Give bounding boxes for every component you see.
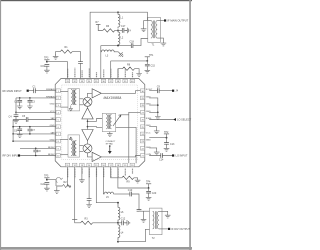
wire pin14 drop	[88, 167, 90, 199]
junction dot TP4	[148, 187, 150, 189]
wire TP5 stub right	[47, 180, 56, 186]
junction dot R6/L1/L2/C17	[117, 30, 119, 32]
svg-text:C20: C20	[152, 192, 157, 195]
capacitor C18 (series)	[131, 43, 133, 48]
resistor R2	[63, 184, 72, 187]
wire L2 bottom junction row	[101, 45, 132, 47]
test point TP5 bar	[44, 177, 49, 179]
junction dot pin7 row C7	[29, 133, 31, 135]
pin 30 box (right)	[140, 89, 144, 93]
resistor R3	[81, 221, 93, 224]
pin 33 box (top)	[80, 79, 84, 83]
capacitor C7 in pin33 drop	[78, 62, 83, 64]
ground below T1 secondary	[161, 41, 167, 46]
junction dot LO chain upper	[87, 121, 89, 123]
pin 11 name label (bottom, rotated smudge)	[132, 169, 134, 174]
pin 20 box (bottom)	[65, 163, 69, 167]
LO amp B2 triangle (points down)	[82, 130, 93, 141]
inductor L1 (vertical)	[118, 12, 120, 28]
junction dot pin8 row	[12, 140, 14, 142]
pin 34 box (top)	[87, 79, 91, 83]
wire link pin5 to pin7 row	[12, 120, 14, 134]
pin 9 box (left)	[56, 147, 60, 151]
test point bar R7b	[72, 218, 77, 220]
svg-text:C15: C15	[151, 65, 156, 68]
pin 40 box (top)	[130, 79, 134, 83]
wire pin13 to ground	[81, 167, 83, 178]
pin 13 name label (bottom, rotated smudge)	[117, 169, 119, 178]
capacitor C1 (series)	[34, 88, 36, 93]
svg-text:IF DIV OUTPUT: IF DIV OUTPUT	[171, 227, 190, 231]
wire LO chain to balun X3 lower tap	[88, 126, 103, 129]
capacitor C14 (series)	[161, 153, 163, 158]
wire LO chain to balun X3 upper tap	[88, 119, 103, 122]
pin 18 box (bottom)	[80, 163, 84, 167]
wire pin8 row	[13, 140, 56, 142]
ground R9	[135, 178, 141, 183]
node LO SELECT (arrow)	[173, 118, 176, 121]
wire R9 right to ground	[134, 177, 138, 180]
inductor L5 (horizontal)	[104, 192, 115, 194]
border frame right	[189, 0, 191, 250]
pin 35 box (top)	[94, 79, 98, 83]
capacitor C6 (shunt)	[19, 127, 21, 129]
svg-text:TP4: TP4	[146, 181, 151, 184]
resistor R9 row (bottom, from pin17)	[111, 167, 122, 178]
test-point stub R7 (bar)	[96, 24, 103, 30]
ground below R8	[136, 72, 142, 77]
node IF DIV OUTPUT	[168, 228, 170, 230]
border frame bottom	[0, 247, 192, 250]
wire pin36 up (L3 column continues to pin)	[100, 52, 102, 79]
wire pin9 row	[20, 147, 56, 149]
junction dot C4	[15, 112, 17, 114]
wire mixer M2 to amp A2	[88, 153, 93, 157]
wire LO amp B1 to mixer M1	[87, 106, 89, 108]
wire balun X2 to mixer M2 (upper)	[80, 144, 84, 146]
wire pin23 gnd row	[149, 148, 157, 150]
svg-text:LO SELECT: LO SELECT	[177, 118, 192, 122]
ground below C20	[146, 195, 152, 200]
svg-text:C18: C18	[130, 41, 135, 44]
junction dot center L network	[117, 222, 119, 224]
pin 19 box (bottom)	[73, 163, 77, 167]
capacitor C20	[148, 188, 150, 191]
wire T1 primary top tap	[147, 20, 151, 22]
capacitor C22	[45, 183, 50, 185]
test point TP4 bar	[146, 183, 151, 185]
connector hook (bottom-left)	[56, 178, 63, 183]
IF amp A2 triangle	[92, 152, 101, 161]
pin 27 box (right)	[140, 111, 144, 115]
svg-text:C14: C14	[159, 158, 164, 161]
svg-text:C10: C10	[128, 189, 133, 192]
wire pin25 gnd row	[149, 127, 157, 129]
wire pin21 LO input row	[149, 155, 172, 157]
capacitor C4 (shunt)	[15, 112, 17, 115]
balun X2 (RF div, inside IC)	[68, 135, 80, 157]
junction dot LO chain lower	[87, 126, 89, 128]
pin 15 box (bottom)	[101, 163, 105, 167]
node RF MAIN INPUT	[27, 90, 29, 92]
inductor L6 (vertical, upper)	[118, 203, 120, 223]
pin 17 box (bottom)	[87, 163, 91, 167]
pin 31 name label (top, rotated smudge)	[67, 69, 69, 78]
wire RF main input row	[29, 90, 56, 92]
bottom rail wire to T2	[118, 229, 150, 241]
pin 1 box (left)	[56, 89, 60, 93]
inductor L4 (vertical, lower)	[118, 223, 120, 241]
resistor R6	[103, 29, 115, 32]
wire R1 left to ground	[56, 52, 61, 55]
wire balun X3 right to bottom pin 11	[116, 127, 136, 163]
test point TP3 bar	[44, 59, 49, 61]
svg-text:RF MAIN INPUT: RF MAIN INPUT	[3, 89, 23, 93]
svg-text:MAX19985A: MAX19985A	[104, 96, 122, 100]
svg-text:C19: C19	[41, 65, 46, 68]
capacitor C7b (series between rows)	[29, 126, 31, 128]
ground at L3 right end (diagonal)	[115, 52, 121, 55]
ground below C22	[44, 186, 50, 191]
pin 16 name label (bottom, rotated smudge)	[96, 169, 98, 177]
wire balun X1 to mixer M1 (upper)	[80, 98, 84, 100]
pin 38 box (top)	[116, 79, 120, 83]
test point TP1 bar	[146, 57, 148, 61]
svg-text:LO INPUT: LO INPUT	[176, 154, 188, 158]
pin 7 box (left)	[56, 132, 60, 136]
pin 12 box (bottom)	[123, 163, 127, 167]
pin 39 box (top)	[123, 79, 127, 83]
wire L5 right to C10	[114, 193, 130, 195]
ground below C15	[145, 68, 151, 73]
junction dot top rail / L1	[117, 11, 119, 13]
junction dot TP1	[146, 60, 148, 62]
balun X1 (RF main, inside IC)	[68, 89, 80, 111]
wire link pin7 to pin8 row	[12, 134, 14, 141]
ground pin13	[79, 178, 85, 183]
inductor L3 (horizontal)	[101, 50, 115, 52]
pin 11 box (bottom)	[130, 163, 134, 167]
wire T1 secondary top to output	[157, 20, 164, 22]
pin 34 name label (top, rotated smudge)	[88, 68, 90, 77]
wire arrow to right pin row 27	[121, 112, 140, 115]
wire balun X2 to mixer M2 (lower)	[80, 150, 84, 152]
LO chain vertical wire between B1 and B2	[87, 119, 89, 130]
junction dot RF div row	[35, 155, 37, 157]
wire amp A1 to right pin row 30	[101, 91, 140, 94]
pin 19 name label (bottom, rotated smudge)	[74, 169, 76, 179]
ground right of C12 (rotated)	[123, 222, 127, 224]
ground right of C17 (rotated)	[124, 29, 127, 31]
ground below C21	[86, 203, 92, 208]
ground below C13	[164, 146, 170, 151]
wire R8 right to ground	[135, 69, 140, 72]
IF amp A1 triangle	[92, 89, 101, 98]
ground stub below T1 left top tap	[143, 21, 145, 27]
junction dot pin7 row left	[12, 133, 14, 135]
wire LO amp B2 to mixer M2	[87, 141, 89, 144]
junction dot bottom rail	[117, 241, 119, 243]
wire RFDIV pin8 to balun X2	[60, 139, 68, 141]
LO amp B1 triangle (points up)	[82, 108, 93, 119]
resistor R8 row (top right of IC)	[111, 61, 123, 79]
pin 13 box (bottom)	[116, 163, 120, 167]
wire pin6 shunt row	[13, 126, 56, 128]
pin 25 box (right)	[140, 125, 144, 129]
wire RF div input row	[20, 155, 56, 157]
wire amp A2 to right pin row 21	[101, 156, 140, 157]
node J4	[172, 90, 174, 92]
wire pin11(bottom-left) to R2	[68, 167, 72, 186]
wire pin15 down and right to L-network	[96, 167, 118, 203]
wire top-left drop to inductor L3	[100, 46, 102, 50]
pin 5 box (left)	[56, 118, 60, 122]
svg-text:C12: C12	[121, 218, 126, 221]
capacitor C15	[145, 64, 150, 66]
pin 37 name label (top, rotated smudge)	[110, 69, 112, 78]
node RF DIVERSITY INPUT	[18, 154, 20, 156]
capacitor C13	[166, 138, 168, 143]
capacitor C2 (shunt)	[19, 98, 21, 101]
ground R1 left	[53, 54, 59, 59]
wire balun X1 to mixer M1 (lower)	[80, 104, 84, 106]
svg-text:TP2: TP2	[164, 131, 169, 134]
junction dot TP3	[46, 61, 48, 63]
mixer M2 (circle-X)	[83, 144, 92, 153]
junction dot C2	[19, 97, 21, 99]
pin 18 name label (bottom, rotated smudge)	[81, 169, 83, 174]
page background	[0, 0, 192, 250]
pin 14 box (bottom)	[109, 163, 113, 167]
junction dot C3	[29, 97, 31, 99]
capacitor C9 (series)	[158, 88, 160, 93]
node LO INPUT	[172, 154, 174, 156]
wire pin16 down to L5	[103, 167, 105, 193]
pin 21 box (right)	[140, 154, 144, 158]
pin 4 box (left)	[56, 111, 60, 115]
wire balun X3 area down to bottom pin 12	[128, 115, 130, 163]
pin 22 box (right)	[140, 147, 144, 151]
capacitor C21 in pin14 drop	[87, 199, 92, 201]
capacitor C10 (series)	[130, 192, 132, 197]
pin 20 name label (bottom, rotated smudge)	[67, 169, 69, 178]
pin 6 box (left)	[56, 125, 60, 129]
wire pin24 VCC row	[149, 137, 166, 139]
wire VCC feed row to TP1 junction	[111, 60, 148, 62]
ground below C19	[44, 68, 50, 73]
svg-text:C22: C22	[41, 183, 46, 186]
wire pin18 to TP4 junction	[118, 167, 149, 188]
pin 31 box (top)	[65, 79, 69, 83]
pin 24 box (right)	[140, 132, 144, 136]
pin 28 box (right)	[140, 103, 144, 107]
junction dot gnd bus 2	[157, 112, 159, 114]
ground bus wire right pins 29-27	[149, 98, 158, 112]
pin 40 name label (top, rotated smudge)	[132, 72, 134, 77]
resistor R1	[60, 50, 72, 53]
LO select arrow through balun X3	[113, 115, 121, 126]
junction dot L network top	[117, 202, 119, 204]
capacitor C5 (series)	[26, 117, 28, 122]
junction dot L2 bottom	[117, 45, 119, 47]
svg-text:VCC: VCC	[146, 132, 151, 134]
wire C10 to T2 upper tap	[132, 194, 140, 210]
pin 33 name label (top, rotated smudge)	[81, 70, 83, 77]
transformer T1	[148, 17, 161, 42]
border frame top	[0, 0, 192, 1]
svg-text:TP1: TP1	[149, 54, 154, 57]
wire RFMAIN pin3 to balun X1	[60, 106, 68, 108]
wire mixer M1 to amp A1	[88, 93, 93, 97]
svg-text:GND: GND	[50, 104, 55, 106]
wire R2 left to ground	[57, 186, 63, 189]
junction dot VCC row	[166, 137, 168, 139]
wire T1 secondary bottom to ground	[157, 38, 163, 41]
svg-text:C13: C13	[170, 143, 175, 146]
pin 12 name label (bottom, rotated smudge)	[124, 169, 126, 176]
wire pin26 LO SELECT row	[149, 119, 173, 121]
capacitor C12 right of junction	[118, 222, 122, 224]
pin 16 box (bottom)	[94, 163, 98, 167]
pin 29 box (right)	[140, 96, 144, 100]
wire RFDIV pin10 to balun X2	[60, 154, 68, 156]
capacitor C8 (series between rows 9-10)	[35, 148, 37, 150]
border frame left	[0, 0, 1, 250]
wire pin5 row	[13, 119, 56, 121]
capacitor C11 in T2 feed	[137, 210, 142, 212]
wire TP3 to pin31	[47, 62, 68, 79]
junction dot gnd bus 1	[157, 104, 159, 106]
pin 23 box (right)	[140, 139, 144, 143]
pin 32 name label (top, rotated smudge)	[74, 68, 76, 78]
wire pin30 row (IF out aux)	[149, 90, 172, 92]
pin 26 box (right)	[140, 118, 144, 122]
capacitor C17	[118, 29, 122, 31]
wire RFMAIN pin1 to balun X1	[60, 91, 68, 93]
pin 38 name label (top, rotated smudge)	[117, 68, 119, 77]
wire T2 secondary top to ground	[159, 211, 168, 213]
node IF MAIN OUTPUT	[164, 19, 166, 21]
wire pin7 row	[13, 133, 56, 135]
pin 10 box (left)	[56, 154, 60, 158]
balun X3 (LO, inside IC)	[102, 113, 115, 131]
ground stub on T2 upper tap	[143, 211, 145, 217]
test point TP2 bar	[166, 134, 168, 138]
junction dot TP5	[46, 179, 48, 181]
wire C18 to T1 lower tap	[133, 39, 148, 46]
capacitor C19	[45, 65, 50, 67]
wire R1 right down to pin33	[72, 52, 80, 62]
junction dot pin6 row	[12, 126, 14, 128]
svg-text:TP5: TP5	[44, 175, 49, 178]
ground pin23	[154, 150, 160, 155]
pin 3 box (left)	[56, 103, 60, 107]
pin 36 box (top)	[101, 79, 105, 83]
wire pin2 bias row	[16, 97, 56, 99]
pin 37 box (top)	[109, 79, 113, 83]
pin 36 name label (top, rotated smudge)	[103, 69, 105, 77]
wire C4 node to pin4	[16, 111, 56, 113]
ground for bus	[155, 115, 161, 120]
op IC U1 MAX19985A body	[55, 79, 145, 167]
svg-text:C17: C17	[121, 25, 126, 28]
ground pin25	[154, 129, 160, 134]
pin 2 box (left)	[56, 96, 60, 100]
inductor L2 (vertical)	[118, 30, 120, 45]
pin 35 name label (top, rotated smudge)	[96, 72, 98, 77]
svg-text:EP PAD: EP PAD	[106, 142, 114, 145]
ground below balun X3	[107, 132, 113, 137]
wire T2 secondary bottom to output	[159, 228, 168, 230]
pin 14 name label (bottom, rotated smudge)	[110, 169, 112, 178]
exposed pad arrow	[109, 145, 111, 147]
svg-text:GND: GND	[146, 140, 151, 142]
mixer M1 (circle-X)	[83, 97, 92, 106]
ground T2 secondary top	[165, 213, 171, 218]
pin 17 name label (bottom, rotated smudge)	[88, 169, 90, 178]
pin 32 box (top)	[73, 79, 77, 83]
wire pin12 drop to R3 node	[74, 167, 76, 220]
IC die dashed boundary	[62, 85, 138, 160]
pin 8 box (left)	[56, 139, 60, 143]
wire pin2 row down-link to C4 node	[15, 98, 17, 112]
svg-text:RF DIV INPUT: RF DIV INPUT	[3, 154, 20, 158]
svg-text:IF MAIN OUTPUT: IF MAIN OUTPUT	[167, 19, 188, 23]
pin 39 name label (top, rotated smudge)	[124, 69, 126, 78]
ground R2	[54, 189, 60, 194]
svg-text:TP3: TP3	[44, 57, 49, 60]
pin 15 name label (bottom, rotated smudge)	[103, 169, 105, 178]
top bias rail wire	[90, 12, 147, 78]
capacitor C3 (shunt)	[29, 98, 31, 101]
transformer T2	[150, 208, 163, 235]
